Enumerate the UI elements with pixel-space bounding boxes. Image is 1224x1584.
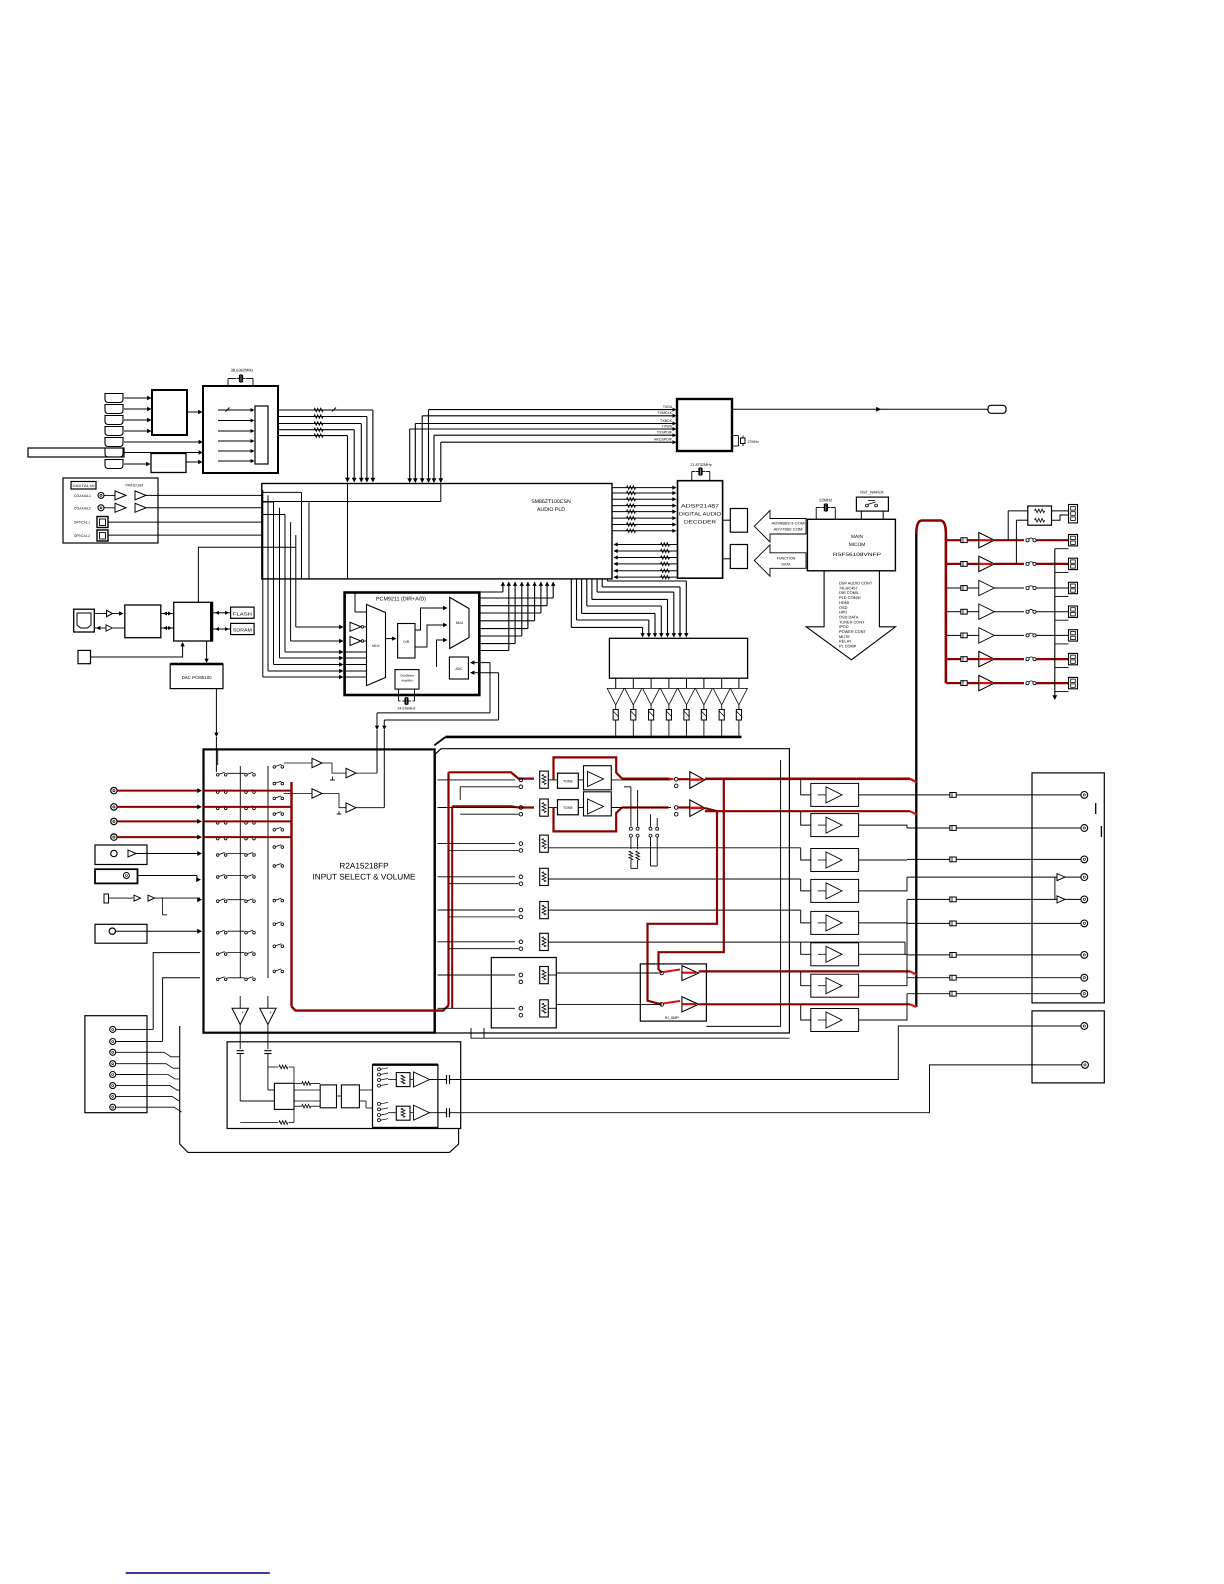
MAIN MICOM R5F56108VNFP box xyxy=(807,519,895,571)
PLD to ADSP wires (8) xyxy=(612,487,675,489)
BI_AMP switches and buffers xyxy=(556,972,659,974)
svg-text:SDRAM: SDRAM xyxy=(233,628,252,633)
svg-text:COAXIAL1: COAXIAL1 xyxy=(74,494,91,498)
PCM9211 (DIR+A/D) box xyxy=(345,593,480,696)
antenna rod bar xyxy=(28,448,124,457)
surround back selector box xyxy=(491,958,556,1028)
svg-text:SM86ZT100CSN: SM86ZT100CSN xyxy=(531,499,571,505)
input row A FL (red) xyxy=(111,787,117,793)
EQ output wire to lower terminal 2 xyxy=(450,1065,1082,1113)
tape loop vertical wire xyxy=(780,760,782,1026)
svg-text:38.6362MHz: 38.6362MHz xyxy=(231,368,254,373)
svg-text:R5F56108VNFP: R5F56108VNFP xyxy=(833,552,881,558)
crystal 27MHz xyxy=(732,435,739,437)
matrix vertical bus lines xyxy=(239,766,241,978)
MICOM control hollow down arrow xyxy=(806,571,895,660)
svg-text:RST_WAFER: RST_WAFER xyxy=(860,491,884,495)
input row F phono box xyxy=(95,869,138,883)
svg-text:+: + xyxy=(241,1010,244,1015)
main vertical wire bus xyxy=(915,534,917,1007)
oscillation amplifier box xyxy=(395,670,419,690)
EQ resistors xyxy=(268,1066,278,1068)
svg-text:COAXIAL2: COAXIAL2 xyxy=(74,507,91,511)
svg-text:DATA: DATA xyxy=(781,563,791,567)
FLASH box xyxy=(231,607,255,618)
connector fan-out wires xyxy=(147,1028,153,1030)
PCM9211 outputs staircase up to PLD bottom xyxy=(479,597,553,599)
AUDIO PLD box SM86ZT100CSN xyxy=(262,484,612,579)
speaker output rows xyxy=(907,794,1081,796)
red riser pair to tone strip xyxy=(447,772,449,1005)
svg-text:DIGITAL AUDIO: DIGITAL AUDIO xyxy=(679,512,721,518)
extra PLD bottom arrow xyxy=(502,583,504,585)
PCM9211 DIR box xyxy=(386,638,395,640)
ADSP com port boxes xyxy=(723,519,731,521)
phono EQ box xyxy=(373,1065,438,1128)
DIGITAL IN label xyxy=(71,482,96,490)
tone row 1 red bypass loop xyxy=(554,757,623,780)
red vertical select bus xyxy=(290,782,292,1007)
switch matrix col3 xyxy=(273,766,276,769)
speaker terminal box upper xyxy=(1032,773,1104,1003)
svg-text:TONE: TONE xyxy=(563,780,574,784)
svg-text:DECODER: DECODER xyxy=(684,520,716,526)
HDMI output line to antenna connector xyxy=(732,408,988,410)
EQ input wires xyxy=(239,1066,241,1101)
USB connector xyxy=(74,609,95,632)
svg-text:TXWS: TXWS xyxy=(662,424,673,428)
signal region outer box xyxy=(435,749,789,1033)
tuner output lines to PLD xyxy=(278,409,373,411)
svg-text:ADSP21487: ADSP21487 xyxy=(681,504,719,510)
svg-text:TXSPDIF: TXSPDIF xyxy=(657,431,673,435)
switch matrix col1+col2 xyxy=(216,774,219,777)
svg-text:ADV7850 COM: ADV7850 COM xyxy=(774,528,803,532)
svg-text:MICOM: MICOM xyxy=(849,542,866,548)
tuner inner register rect xyxy=(255,406,268,464)
feedback columns with mute switches xyxy=(630,787,632,827)
input row J wire xyxy=(163,978,200,1042)
PLD interior verticals from tuner lines xyxy=(347,484,349,579)
svg-text:AUDIO PLD: AUDIO PLD xyxy=(537,507,565,513)
wire box2 to tuner box xyxy=(186,461,201,463)
DAC output down to input selector xyxy=(215,689,217,734)
input row I wire xyxy=(153,953,200,1030)
svg-text:DIR: DIR xyxy=(403,640,409,644)
svg-text:+: + xyxy=(269,1010,272,1015)
IR sensor square xyxy=(78,650,91,663)
svg-text:TXD0: TXD0 xyxy=(663,405,672,409)
front-end box 1 xyxy=(152,390,187,435)
red branch row1 to BI_AMP xyxy=(659,779,724,973)
DIR to MUX2 wires xyxy=(415,608,445,630)
zone top connector xyxy=(1069,505,1078,523)
svg-text:OPTICAL 1: OPTICAL 1 xyxy=(74,521,90,525)
hollow arrow ADV8003 COM xyxy=(754,511,806,543)
svg-text:TXMCLK: TXMCLK xyxy=(657,411,672,415)
HDMI TX input lines from PLD top xyxy=(409,429,411,480)
svg-text:R2A15218FP: R2A15218FP xyxy=(339,862,389,871)
DIGITAL IN outer box xyxy=(63,478,158,543)
svg-text:ADV8003-3 COM: ADV8003-3 COM xyxy=(772,522,805,526)
volume output opamps (+) xyxy=(232,1008,248,1024)
svg-text:Amplifier: Amplifier xyxy=(401,679,413,683)
R2A15218FP input select and volume box xyxy=(204,749,435,1032)
hollow arrow FUNCTION DATA xyxy=(754,545,806,577)
tone row 1 output to final buffer xyxy=(622,777,669,779)
BI_AMP red outputs xyxy=(699,970,910,972)
input row C (red) xyxy=(111,818,117,824)
tone row 2 FR xyxy=(452,806,534,807)
svg-text:MUX: MUX xyxy=(456,621,464,625)
HDMI TX box xyxy=(677,399,732,451)
BI_AMP bottom tie wire xyxy=(706,1025,780,1027)
input row B FR (red) xyxy=(111,804,117,810)
crystal 24.576MHz xyxy=(398,689,400,701)
tone row 1 thick red output xyxy=(705,777,910,780)
PCM9211 input inverters xyxy=(350,622,361,631)
PCM9211 ADC box xyxy=(449,657,468,679)
power amp column cells xyxy=(811,783,859,806)
svg-text:ADC: ADC xyxy=(455,667,463,671)
speaker terminal box lower xyxy=(1032,1011,1104,1083)
BI_AMP box xyxy=(640,964,706,1021)
ADC input wires from R2A recout xyxy=(471,662,490,664)
input row G mic jack xyxy=(104,894,109,903)
multi channel input connector box xyxy=(85,1016,147,1113)
wires: connectors to front-end boxes xyxy=(124,397,150,399)
zone resistor box xyxy=(1028,506,1052,525)
tone row 2 thick red output xyxy=(705,810,910,812)
center channel split triangles xyxy=(1054,877,1056,899)
svg-text:DIGITAL IN: DIGITAL IN xyxy=(73,484,96,488)
svg-text:Oscillation: Oscillation xyxy=(400,674,414,678)
bidirectional wires to HDMI RX box xyxy=(161,613,174,615)
svg-text:24.576MHz: 24.576MHz xyxy=(398,707,416,711)
svg-text:MAIN: MAIN xyxy=(851,534,864,540)
svg-text:BI_AMP: BI_AMP xyxy=(665,1016,679,1020)
svg-text:74VHCU04: 74VHCU04 xyxy=(125,484,143,488)
strip rows 3-6 with volume resistors xyxy=(438,843,516,845)
tuner big box xyxy=(203,386,278,473)
svg-text:FLASH: FLASH xyxy=(233,611,252,616)
svg-text:TONE: TONE xyxy=(563,806,574,810)
svg-text:12MHz: 12MHz xyxy=(819,498,832,503)
DAC PCM5100 box xyxy=(170,664,223,689)
SDRAM box xyxy=(231,623,255,634)
ADSP21487 DIGITAL AUDIO DECODER box xyxy=(678,481,723,579)
HDMI RX I2S to PCM9211 wire xyxy=(198,547,295,602)
right panel return ground wire xyxy=(1054,549,1056,696)
tuner antenna connector stubs xyxy=(105,394,123,403)
record out preamp triangles xyxy=(312,758,322,768)
tone row 2 red bypass loop below xyxy=(554,808,623,832)
svg-text:PCM9211 (DIR+A/D): PCM9211 (DIR+A/D) xyxy=(376,597,426,603)
PLD left input staircase down to PCM9211 xyxy=(262,489,263,491)
EQ small blocks xyxy=(274,1083,294,1109)
USB interface box xyxy=(125,605,161,638)
EQ subcircuit box xyxy=(227,1042,461,1129)
PCM9211 MUX2 xyxy=(450,597,469,648)
svg-text:INPUT SELECT & VOLUME: INPUT SELECT & VOLUME xyxy=(313,873,417,882)
amp output jogs to bus xyxy=(859,794,907,796)
HDMI RX / processor box xyxy=(174,602,213,641)
tuner internal arrows xyxy=(218,409,253,411)
svg-text:21.8732MHz: 21.8732MHz xyxy=(690,463,712,467)
svg-text:DAC PCM5100: DAC PCM5100 xyxy=(182,675,213,680)
PLD interior routing lines xyxy=(262,491,302,493)
svg-text:MUX: MUX xyxy=(372,644,380,648)
ADSP bottom-right bus to 74HC buffer box xyxy=(570,579,572,628)
phono EQ gain stages xyxy=(396,1073,410,1087)
wire box1 to tuner box xyxy=(187,411,201,413)
input row E with buffer box xyxy=(95,845,147,865)
input row D (red) xyxy=(111,834,117,840)
svg-text:27MHz: 27MHz xyxy=(748,440,760,444)
svg-text:FUNCTION: FUNCTION xyxy=(777,557,796,561)
EQ output wire to lower terminal 1 xyxy=(450,1026,1081,1080)
HDMI RX to DAC wire xyxy=(206,641,208,661)
tone row 1 FL xyxy=(449,772,535,778)
svg-text:TXBCK: TXBCK xyxy=(660,419,673,423)
svg-text:ARCSPDIF: ARCSPDIF xyxy=(654,438,673,442)
ground enclosure path xyxy=(180,1026,459,1152)
EQ output capacitors xyxy=(430,1079,447,1081)
USB to box wires xyxy=(94,613,106,615)
right panel rows xyxy=(946,539,961,541)
wires from R2A top edge xyxy=(217,749,219,765)
surround back return wire xyxy=(471,1028,789,1038)
front-end box 2 xyxy=(151,454,186,473)
footer blue line xyxy=(126,1572,270,1574)
PCM9211 MUX1 xyxy=(367,605,386,686)
74HC buffer box xyxy=(609,638,747,678)
input row H box xyxy=(95,924,147,943)
red selected path in matrix xyxy=(204,790,292,792)
tone row 2 output to final buffer xyxy=(622,806,669,808)
ADSP to PLD wires (6) xyxy=(614,544,678,546)
buffer output triangles and resistors xyxy=(615,678,617,688)
red control bus staple xyxy=(916,521,946,684)
HDMI antenna connector xyxy=(988,405,1006,413)
thick analog bus line xyxy=(446,736,742,739)
red branch row2 to BI_AMP xyxy=(648,811,718,1004)
svg-text:OPTICAL 2: OPTICAL 2 xyxy=(74,534,90,538)
svg-text:PL COMP: PL COMP xyxy=(839,644,857,649)
